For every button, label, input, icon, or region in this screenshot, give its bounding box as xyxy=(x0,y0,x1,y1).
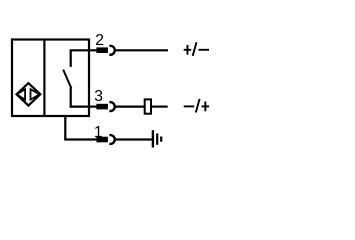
inductive sensor symbol: right triangle xyxy=(31,89,40,99)
sensor body outline xyxy=(12,40,89,117)
svg-text:3: 3 xyxy=(94,88,103,105)
terminal label -/+ : slash glyph xyxy=(196,99,200,113)
plug socket arc pin 2 xyxy=(109,46,114,55)
switch contact blade (NO contact) xyxy=(63,70,71,89)
inductive sensor symbol: diamond xyxy=(17,83,41,106)
ground bar short xyxy=(160,137,162,142)
wire: switch to pin3 lead xyxy=(71,88,98,107)
ground bar medium xyxy=(156,133,158,144)
terminal label -/+ : minus glyph xyxy=(184,99,209,113)
load resistor xyxy=(145,99,151,113)
sensor body divider xyxy=(43,40,45,117)
connector pin 1 xyxy=(96,137,108,143)
wire: pin 2 to terminal xyxy=(115,49,168,51)
wire: pin 3 to load xyxy=(115,105,144,107)
terminal label +/- : slash glyph xyxy=(193,42,197,56)
ground bar long xyxy=(152,130,154,147)
svg-text:2: 2 xyxy=(95,32,104,49)
wire: body bottom to pin1 lead xyxy=(65,115,97,140)
terminal label +/- : minus glyph xyxy=(199,49,210,51)
wire: pin 1 to ground xyxy=(115,138,152,140)
terminal label +/- : plus glyph xyxy=(184,42,209,56)
connector pin 3 xyxy=(96,104,108,110)
plug socket arc pin 1 xyxy=(109,135,114,144)
connector pin 2 xyxy=(96,47,108,53)
wire: load to terminal xyxy=(152,105,168,107)
terminal label -/+ : plus glyph xyxy=(202,105,210,107)
wire: pin2 lead inside body xyxy=(71,50,98,67)
inductive sensor symbol: left triangle xyxy=(17,89,25,99)
plug socket arc pin 3 xyxy=(109,102,114,111)
